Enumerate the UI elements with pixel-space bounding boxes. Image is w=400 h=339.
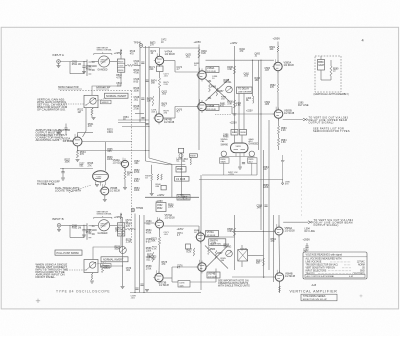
wire V574A plate to screen bus lower bbox=[205, 236, 235, 238]
grid network box Z565 bbox=[117, 223, 124, 236]
capacitor C547 on bus bbox=[145, 79, 148, 81]
potentiometer R510 volts/div bbox=[98, 56, 109, 67]
resistor R575 bbox=[152, 252, 154, 262]
polarity switch SW522 box bbox=[84, 95, 98, 107]
capacitor C545 on bus bbox=[141, 61, 144, 63]
potentiometer R589L swing cal lower bbox=[226, 250, 233, 257]
bus wire vertical x145.5 bbox=[145, 46, 147, 150]
label box V574A bbox=[206, 231, 219, 237]
resistor R474 bbox=[158, 78, 160, 88]
resistor R514 supply feed bbox=[120, 55, 122, 59]
bus wire x263.5 right bbox=[263, 150, 265, 278]
label SW572 bbox=[101, 264, 112, 268]
wire between lower output tubes bbox=[278, 235, 281, 273]
ground V533B cathode bbox=[104, 195, 106, 199]
potentiometer R495 adj bbox=[249, 151, 254, 156]
delay line pair wire x258.5 bbox=[258, 60, 260, 150]
connector vert sig out lower bbox=[308, 221, 311, 224]
screen divider box 2 bbox=[240, 130, 247, 136]
dashed pointer NORMAL INVERT to SW572 bbox=[97, 262, 107, 264]
dashed stub left of screen bus bbox=[215, 114, 231, 116]
wire V474A top to +225 bus bbox=[159, 48, 161, 56]
registration mark bottom-left bbox=[36, 299, 40, 303]
triode V474A bbox=[155, 56, 163, 64]
wire vertical x181.6 delay section bbox=[181, 153, 183, 197]
wire V584B cathode bbox=[279, 281, 281, 293]
wire switch B out bbox=[100, 265, 123, 267]
wire V474A plate to V484A grid bbox=[164, 60, 175, 62]
voltage readings table box bbox=[303, 252, 367, 279]
label box half 6DJ8 bbox=[175, 177, 190, 182]
screen divider box 1 bbox=[231, 130, 238, 136]
wire pot B to grid network bbox=[110, 224, 118, 226]
bus wire vertical x140 bbox=[139, 47, 141, 122]
capacitor C534 coupling bbox=[65, 124, 67, 129]
capacitor C512 shunt bbox=[83, 62, 85, 67]
wire bus to V573A grid bbox=[144, 222, 154, 224]
wire delay driver box down A bbox=[238, 94, 240, 130]
ground V493 cathode bbox=[238, 166, 242, 168]
ground V573B cathode bbox=[145, 289, 149, 291]
potentiometer R494 swing bbox=[221, 151, 226, 156]
cathode coupling network V474 box bbox=[157, 66, 164, 72]
cathode resistor R573 bbox=[158, 237, 160, 245]
triode V583B output bbox=[274, 110, 283, 119]
ground C562 bbox=[82, 234, 86, 236]
dual triode V533 envelope bbox=[93, 171, 109, 182]
schematic revision box bbox=[301, 294, 337, 301]
resistor R564 supply feed bbox=[120, 219, 122, 223]
connector vert sig out upper bbox=[303, 118, 306, 121]
wire horizontal delay section bbox=[169, 164, 186, 166]
boxed label SW574 bbox=[209, 239, 226, 246]
resistor pair delay termination bbox=[157, 174, 159, 180]
ground R539 bbox=[150, 193, 154, 195]
dashed pointer to V533 bbox=[69, 185, 91, 193]
resistor R484 plate load bbox=[198, 49, 200, 58]
ganged switch dashed link vertical bbox=[131, 91, 133, 243]
wire grid network B to bus bbox=[125, 228, 127, 230]
note box wiper bbox=[177, 195, 190, 201]
registration mark bottom-right bbox=[360, 294, 363, 297]
polarity switch SW572 box bbox=[84, 260, 98, 273]
ground lower left bus bbox=[121, 286, 125, 288]
potentiometer R560 volts/div bbox=[98, 220, 109, 231]
wire lower delay box up bbox=[241, 245, 243, 251]
coil L493 bbox=[252, 60, 254, 96]
boxed label R494 bbox=[220, 158, 230, 163]
wire grid box to polarity switch B bbox=[93, 236, 121, 260]
wire grid network to V533A bbox=[85, 108, 87, 131]
resistor R589 inside enclosure bbox=[330, 66, 332, 76]
wire to V584B grid bbox=[232, 276, 275, 278]
capacitor C562 shunt bbox=[83, 225, 85, 229]
wire V533A plate right bbox=[82, 141, 132, 143]
resistor R487 in crossover bbox=[216, 88, 218, 96]
label SW522 bbox=[101, 100, 112, 104]
potentiometer inside SW572 bbox=[89, 262, 95, 268]
resistor R597 bbox=[279, 286, 281, 292]
wire +225 top lower section bbox=[145, 196, 199, 198]
wire input B to coupling bbox=[61, 224, 84, 226]
capacitor C495 bbox=[242, 162, 245, 164]
wire V533A top stub bbox=[77, 133, 79, 138]
peaking coil L533 bbox=[190, 158, 191, 165]
compensation loop input B bbox=[69, 225, 71, 237]
faint fold line right bbox=[301, 150, 303, 218]
termination network box bbox=[176, 167, 186, 173]
dashed pointer NORMAL INVERT to SW522 bbox=[97, 98, 106, 100]
wire vertical x171.9 delay section bbox=[171, 164, 173, 197]
wire vertical bus x201 lower bbox=[200, 175, 202, 290]
label box V574B bbox=[207, 272, 220, 278]
boxed label vert sig bbox=[190, 154, 198, 158]
bus wire vertical x139.5 lower bbox=[139, 215, 141, 293]
grid network box Z515 bbox=[117, 59, 124, 72]
ground tick screen bus bbox=[233, 113, 237, 115]
wire horizontal bus y179.5 bbox=[199, 179, 283, 181]
wire left feed y168.5 bbox=[60, 168, 93, 170]
potentiometer R576 lower bbox=[119, 247, 126, 254]
wire between output tubes bbox=[277, 71, 279, 84]
wire switch to pot B bbox=[91, 224, 98, 226]
capacitor C595 decoupling bbox=[306, 243, 308, 246]
triode V573B bbox=[155, 273, 163, 281]
ground V533A cathode bbox=[76, 159, 80, 161]
resistor R584 bbox=[277, 138, 279, 146]
resistor R571 below switch bbox=[91, 273, 93, 280]
label NORMAL INVERT switch A bbox=[105, 93, 129, 98]
coupling box lower mid bbox=[161, 185, 166, 190]
wire V573 cathode chain bbox=[159, 228, 161, 237]
input coupling switch SW562 contacts bbox=[86, 223, 88, 240]
cathode resistor R534 bbox=[77, 146, 79, 150]
wire to V574B grid bbox=[171, 267, 173, 278]
wire R573 to V573B bbox=[158, 245, 161, 273]
crossover network wire A bbox=[206, 79, 230, 101]
wire envelope top stubs bbox=[234, 135, 236, 143]
wire pot row y156.5 bbox=[222, 156, 255, 158]
wire switch to pot bbox=[91, 61, 98, 63]
wire bus interconnect y120 bbox=[118, 119, 149, 121]
ground C533 bbox=[62, 173, 64, 178]
ground input B connector bbox=[58, 227, 60, 229]
potentiometer R489 swing cal bbox=[226, 86, 233, 93]
ground dual triode bbox=[95, 184, 99, 186]
resistor R587 in lower crossover bbox=[215, 251, 217, 259]
crossover network lower wire A bbox=[205, 246, 228, 269]
capacitor C593 right bus bbox=[264, 204, 267, 206]
bus wire vertical x149 bbox=[148, 46, 150, 152]
wire grid box to polarity switch A bbox=[92, 72, 121, 95]
wire diagonal bus to delay section B bbox=[145, 150, 147, 161]
boxed label R495 bbox=[248, 158, 258, 163]
wire bus interconnect y126.5 bbox=[122, 126, 149, 128]
resistor R593 bbox=[263, 258, 265, 266]
graticule lights box bbox=[318, 60, 325, 71]
wire lower bus bottom bbox=[130, 292, 201, 294]
bus wire x269 right bbox=[268, 120, 270, 270]
resistor R544 pickoff load bbox=[124, 168, 126, 171]
ground input A connector bbox=[58, 63, 60, 65]
bus wire x273.3 right bbox=[272, 215, 274, 282]
wire diagonal bus to delay section A bbox=[148, 152, 150, 158]
capacitor C549 on bus bbox=[141, 97, 144, 99]
test point TP560 bbox=[131, 208, 135, 212]
resistor R519 series bbox=[127, 64, 134, 66]
ground R522 bbox=[91, 115, 93, 117]
wire grid network to bus bbox=[125, 64, 127, 66]
dashed pointer calibrator note to V533A bbox=[58, 140, 72, 142]
ground C512 bbox=[82, 71, 86, 73]
crossover network wire B bbox=[206, 79, 230, 101]
interstage box bbox=[156, 203, 166, 212]
label pull-push switch bbox=[55, 250, 82, 255]
wire bus interconnect y122.5 bbox=[118, 122, 146, 124]
triode V573A bbox=[156, 220, 164, 228]
wire V573A plate to V574A bbox=[164, 225, 200, 227]
wire bus interconnect y113.5 bbox=[135, 113, 144, 115]
screen supply bus x234.5 bbox=[234, 46, 236, 133]
wires inside graticule enclosure bbox=[320, 70, 322, 80]
capacitor C569 lower bus bbox=[135, 287, 138, 289]
triode V533A input amplifier bbox=[73, 137, 82, 146]
resistor R574 lower bus bbox=[121, 227, 123, 236]
wire V584A top bbox=[278, 215, 280, 227]
resistor R583 bbox=[277, 126, 279, 134]
label box to delay line driver bbox=[237, 87, 253, 94]
wire V583B cathode chain bbox=[278, 118, 280, 126]
resistor R582 interstage bbox=[277, 84, 279, 92]
wire coupling box to crossover bbox=[190, 281, 216, 283]
triode V584A output bbox=[275, 227, 283, 235]
wire R474 to V474B bbox=[158, 88, 161, 114]
ground pickoff bbox=[124, 179, 126, 187]
wire cathode node to bus columns bbox=[78, 150, 150, 152]
wire input A to coupling bbox=[60, 61, 84, 63]
coupling box lower between tubes bbox=[186, 244, 191, 249]
resistor R486 in crossover bbox=[209, 84, 211, 92]
pentode V574A bbox=[196, 233, 204, 241]
resistor R569 series bbox=[127, 228, 134, 230]
wire V493 cathode down bbox=[239, 157, 241, 167]
wire V484B plate to screen bus bbox=[206, 106, 232, 108]
pentode V574B bbox=[198, 263, 206, 271]
bus wire vertical x144 lower bbox=[143, 215, 145, 293]
dashed pointer note to switch B bbox=[65, 269, 87, 271]
wire output to delay line connector bbox=[283, 119, 303, 121]
label box V484A bbox=[206, 67, 219, 73]
label box V484B bbox=[206, 105, 219, 111]
left lower bus x122.5 bbox=[122, 217, 124, 286]
potentiometer inside SW522 bbox=[90, 98, 96, 104]
long bus x261 bbox=[260, 60, 262, 230]
wire output to delay line connector lower bbox=[283, 221, 308, 223]
resistor R476 bbox=[152, 96, 154, 106]
pentode V484A bbox=[198, 71, 207, 80]
dashed pointer note to switch A bbox=[59, 103, 85, 105]
wire to V583B grid bbox=[232, 113, 274, 115]
wire grid feed to V533 envelope bbox=[105, 142, 107, 171]
resistor column between mid tubes bbox=[193, 248, 195, 256]
+295V feed upper right bbox=[277, 42, 279, 47]
label NORMAL INVERT switch B bbox=[101, 257, 128, 262]
crossover network lower wire B bbox=[205, 246, 228, 269]
wire upper to V583A grid bbox=[206, 59, 274, 61]
screen bus lower x234.5 bbox=[234, 215, 236, 270]
wire V474 cathode link bbox=[159, 65, 161, 66]
pentode V484B bbox=[198, 102, 207, 111]
triode V544 pickoff bbox=[121, 160, 128, 167]
capacitor C552 on bus bbox=[141, 117, 144, 119]
wire V573B plate via coupling box bbox=[164, 277, 172, 279]
resistor R490 bbox=[233, 100, 235, 108]
wire TP540 link bbox=[143, 47, 160, 49]
wire lower delay box to bus bbox=[248, 255, 264, 257]
wire lower row y175 bbox=[202, 174, 257, 176]
test point TP540 bbox=[139, 44, 143, 48]
+225V bus center bbox=[198, 45, 200, 151]
triode V584B output bbox=[275, 273, 283, 281]
resistor R572 below switch bbox=[101, 265, 103, 273]
termination arrow y180 end bbox=[281, 180, 283, 186]
coupling code box bottom middle bbox=[178, 281, 190, 288]
wire +225 mid horizontal bbox=[145, 196, 199, 198]
ganged switch dashed link horizontal upper bbox=[60, 90, 133, 92]
wire delay driver box down B bbox=[243, 94, 245, 130]
resistor R586 in lower crossover bbox=[208, 247, 210, 255]
delay line input network box bbox=[179, 148, 184, 153]
wire to V584A grid bbox=[232, 230, 275, 232]
wire pot stems down bbox=[223, 163, 225, 175]
compensation loop input A bbox=[69, 62, 71, 74]
triode V583A output bbox=[274, 62, 282, 70]
input coupling switch SW512 contacts bbox=[86, 60, 88, 77]
pins V493 bbox=[235, 153, 237, 157]
resistor R522 bbox=[91, 108, 93, 115]
triode V533B bbox=[101, 187, 109, 195]
capacitor C533 shunt bbox=[61, 171, 64, 173]
delay line driver tube V493 envelope bbox=[231, 143, 249, 153]
ground SW572 bbox=[90, 280, 94, 282]
voltage readings highlighted row bbox=[305, 274, 365, 278]
bus wire vertical x135 lower bbox=[134, 214, 136, 293]
wire V474B plate to V484B grid bbox=[163, 117, 175, 119]
wire pot to grid network bbox=[110, 61, 118, 63]
phase network box lower bbox=[238, 250, 248, 262]
resistor R488 bbox=[233, 66, 235, 74]
triode V474B bbox=[155, 114, 163, 122]
graticule dashed enclosure bbox=[315, 56, 341, 92]
termination resistor R539 left bbox=[151, 165, 153, 174]
resistor R588 lower bbox=[233, 228, 235, 236]
